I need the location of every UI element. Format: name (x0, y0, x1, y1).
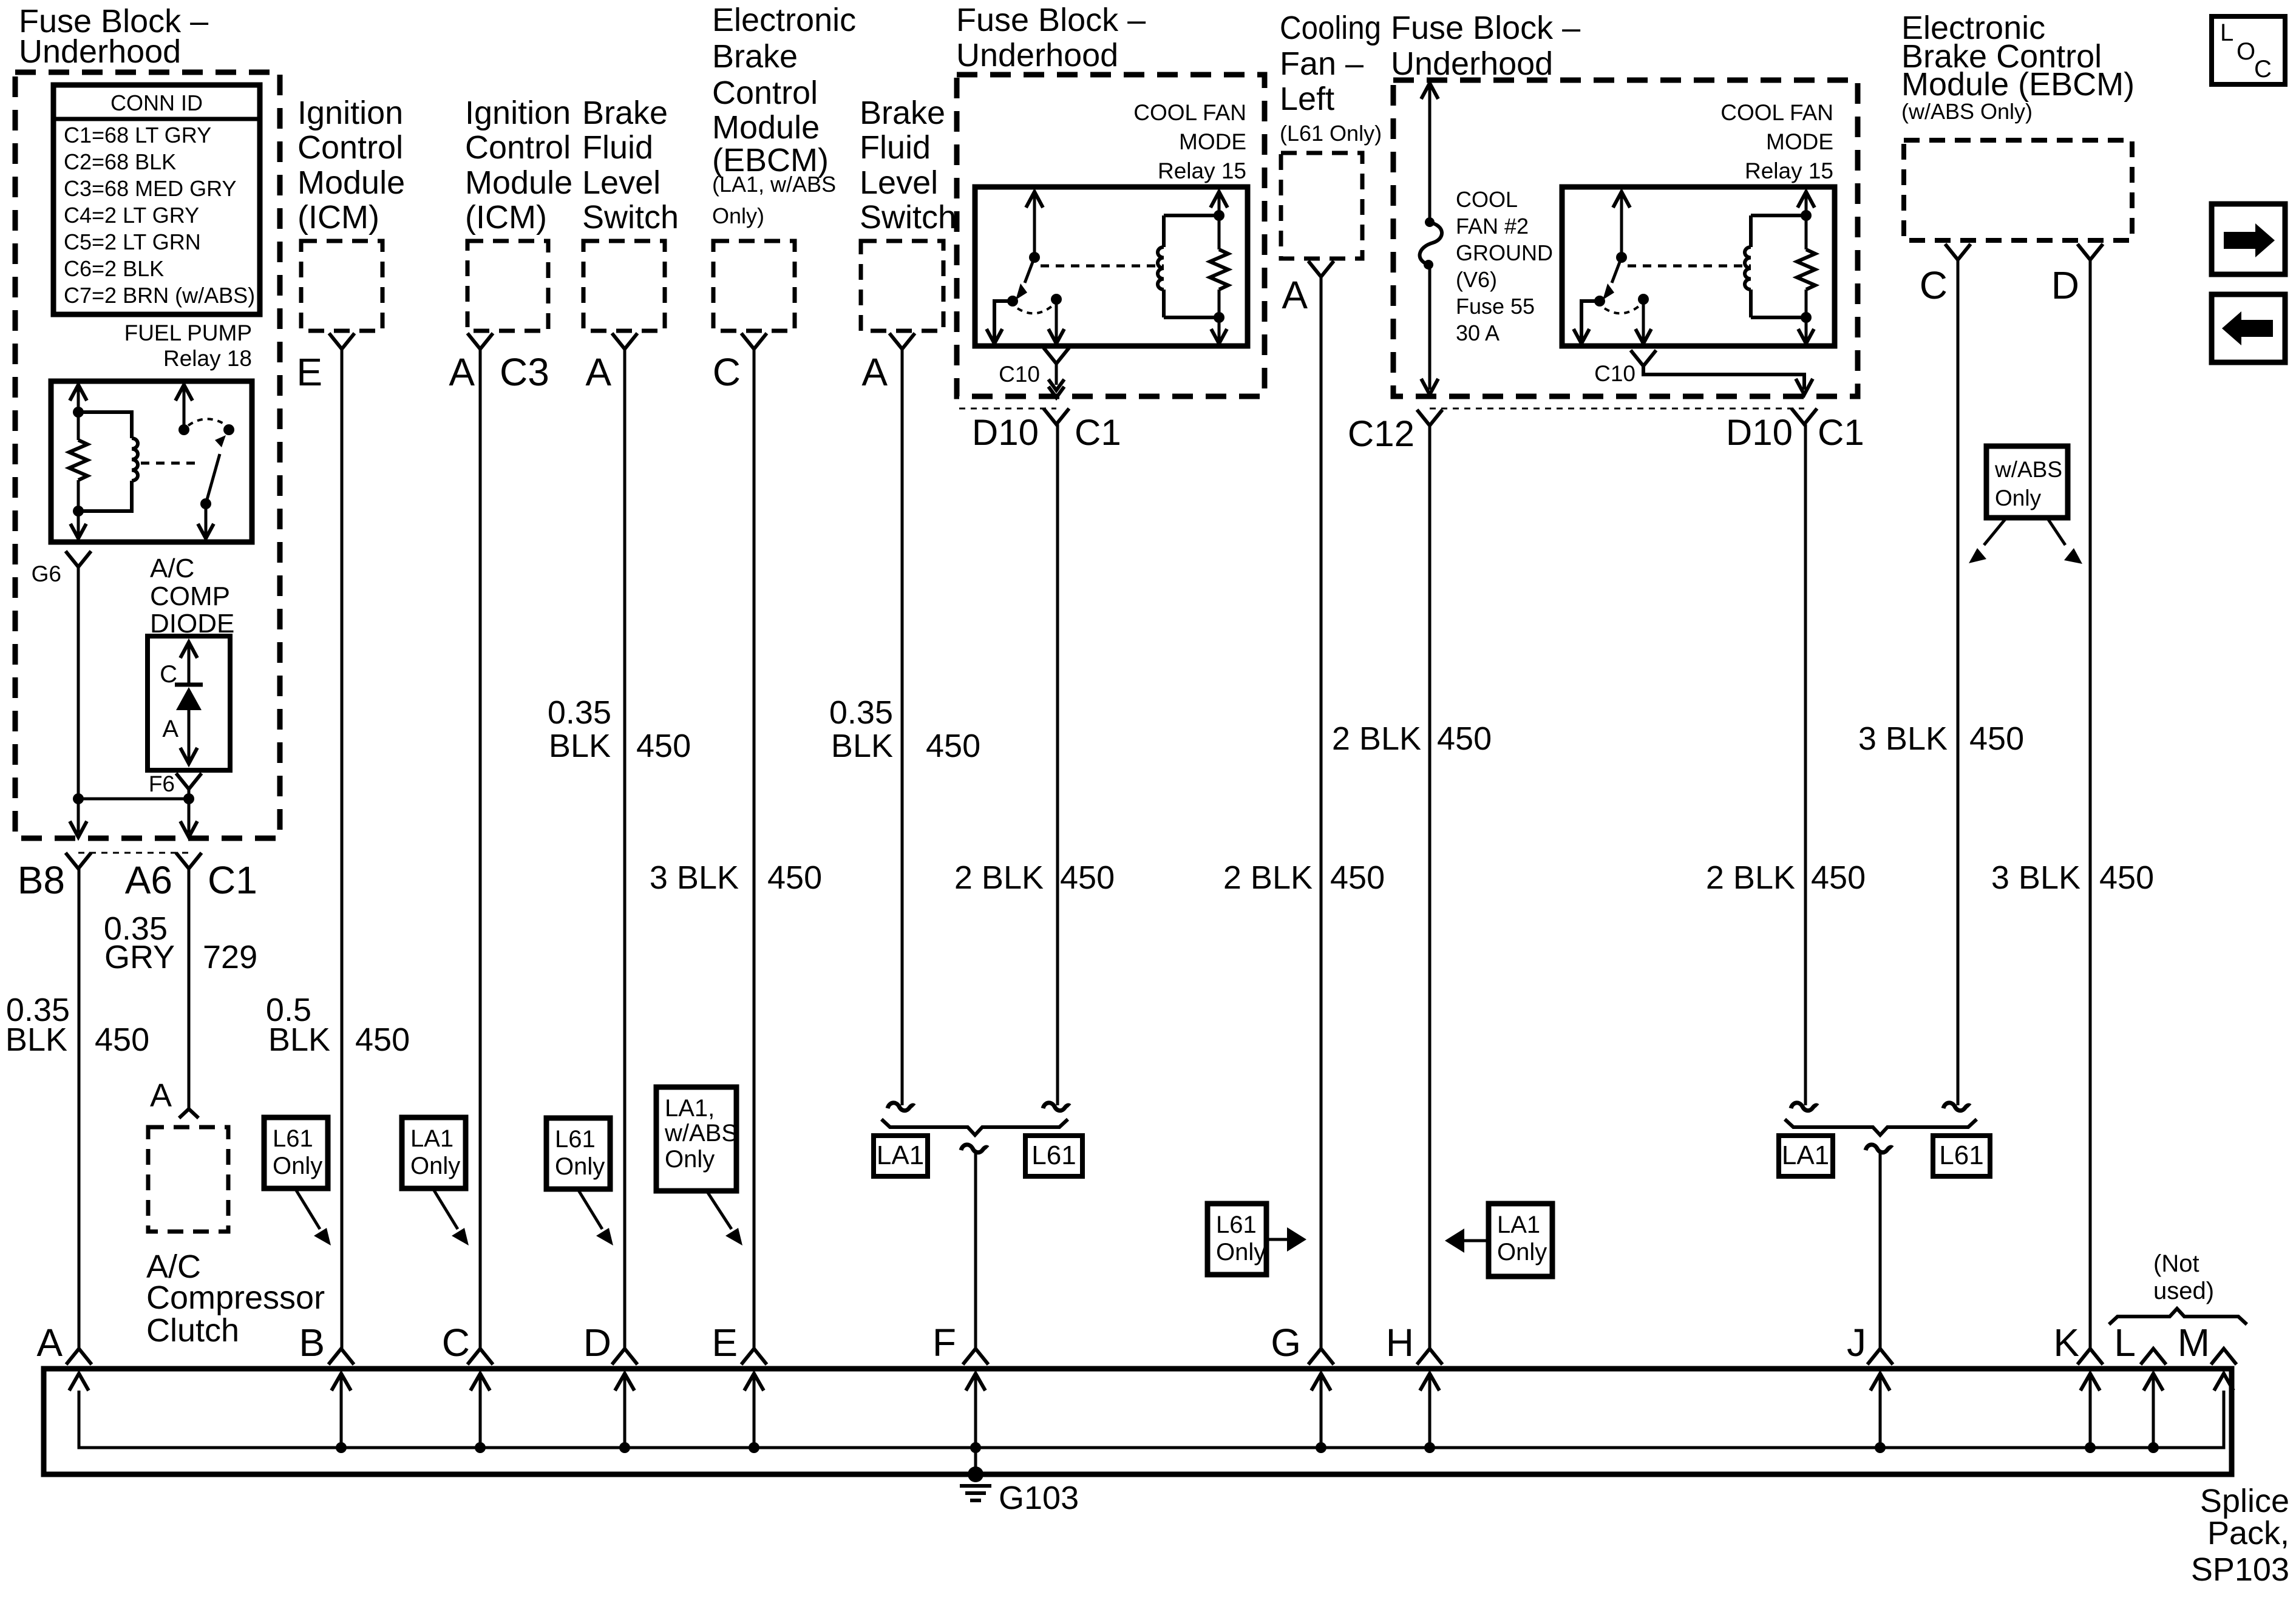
svg-text:G103: G103 (999, 1480, 1079, 1516)
connector F6 fork (149, 771, 202, 796)
svg-text:BLK: BLK (5, 1022, 67, 1058)
svg-text:B: B (299, 1321, 325, 1364)
svg-text:Fan –: Fan – (1280, 46, 1364, 82)
svg-text:Fuse Block –: Fuse Block – (1391, 10, 1580, 46)
svg-text:COOL FAN: COOL FAN (1133, 100, 1246, 125)
cooling fan - left dashed box (1281, 153, 1362, 259)
wire K (3 BLK 450) EBCM2-D to splice K (2089, 260, 2092, 1349)
svg-text:450: 450 (926, 728, 980, 764)
wire E (3 BLK 450) EBCM1-C to splice E (753, 349, 756, 1349)
A/C COMP DIODE label (150, 554, 234, 639)
svg-text:Pack,: Pack, (2207, 1515, 2289, 1551)
svg-text:Fuse Block –: Fuse Block – (956, 2, 1146, 38)
svg-text:D10: D10 (972, 412, 1039, 453)
svg-text:A: A (585, 350, 611, 394)
ignition control module 2 dashed box (467, 241, 548, 331)
cool fan mode relay 15 label (right) (1720, 100, 1833, 183)
svg-text:LA1: LA1 (1782, 1140, 1829, 1170)
connector D10/C1 fork (right) (1726, 408, 1864, 453)
svg-text:Control: Control (465, 129, 571, 166)
svg-text:MODE: MODE (1766, 129, 1833, 154)
L61 Only arrow (wire B) (295, 1188, 331, 1246)
svg-text:L61: L61 (1216, 1212, 1257, 1238)
connector A/C3 fork (ICM2) (449, 333, 549, 394)
svg-text:G: G (1271, 1321, 1301, 1364)
splice A connector (36, 1321, 92, 1391)
svg-text:w/ABS: w/ABS (664, 1120, 738, 1147)
svg-text:Fluid: Fluid (582, 129, 653, 166)
wire J to splice J (1866, 1145, 1892, 1349)
EBCM (LA1 w/ABS) dashed box (713, 241, 795, 331)
svg-text:3 BLK: 3 BLK (1991, 859, 2080, 896)
right-arrow legend box (2212, 204, 2285, 274)
svg-text:SP103: SP103 (2191, 1551, 2289, 1588)
svg-text:C1: C1 (208, 858, 257, 902)
svg-text:H: H (1386, 1321, 1414, 1364)
svg-text:Level: Level (582, 164, 661, 201)
svg-text:B8: B8 (18, 858, 65, 902)
label 0.35 BLK 450 (BFLS2 wire) (829, 694, 980, 764)
svg-text:BLK: BLK (831, 728, 893, 764)
LA1 Only horizontal arrow (wire H) (1445, 1229, 1489, 1253)
svg-text:2 BLK: 2 BLK (954, 859, 1044, 896)
L61 Only callout (wire D) (546, 1118, 610, 1189)
svg-text:C: C (442, 1321, 470, 1364)
svg-text:Brake: Brake (582, 95, 668, 131)
splice pack SP103 box (44, 1369, 2232, 1474)
wire H (2 BLK 450) C12 to splice H (1428, 425, 1432, 1349)
A/C compressor clutch dashed box (148, 1127, 228, 1232)
junction bus in fuse block (73, 793, 194, 804)
svg-text:450: 450 (1330, 859, 1385, 896)
connector D10/C1 fork (middle) (972, 408, 1121, 453)
svg-text:Relay 15: Relay 15 (1745, 158, 1833, 183)
fuse block - underhood (left) dashed box (15, 72, 280, 838)
svg-text:Level: Level (860, 164, 938, 201)
cooling fan - left title (1280, 10, 1382, 146)
EBCM (w/ABS) dashed box (1904, 140, 2132, 240)
svg-text:Control: Control (712, 75, 818, 111)
svg-text:used): used) (2153, 1278, 2214, 1304)
svg-text:C: C (1920, 263, 1948, 307)
svg-text:0.35: 0.35 (548, 694, 611, 731)
svg-text:LA1,: LA1, (665, 1095, 715, 1122)
splice J connector (1847, 1321, 1893, 1453)
svg-text:Only: Only (1497, 1239, 1547, 1266)
svg-text:C1=68 LT GRY: C1=68 LT GRY (64, 123, 211, 147)
left-arrow legend box (2212, 294, 2285, 362)
svg-text:A: A (36, 1321, 63, 1364)
svg-text:Relay 18: Relay 18 (163, 346, 252, 371)
L61 Only arrow (wire D) (577, 1188, 613, 1246)
L61 branch tag box (J) (1933, 1136, 1990, 1176)
fuel pump relay 18 (51, 381, 252, 542)
svg-text:450: 450 (355, 1022, 410, 1058)
cool fan mode relay 15 (middle) (975, 187, 1248, 346)
svg-text:(Not: (Not (2153, 1250, 2199, 1277)
svg-text:E: E (296, 350, 322, 394)
svg-text:450: 450 (767, 859, 822, 896)
svg-text:Switch: Switch (860, 199, 956, 236)
splice L connector (2114, 1321, 2166, 1453)
splice M connector (2178, 1321, 2237, 1391)
svg-text:D: D (583, 1321, 611, 1364)
LA1 w/ABS Only arrow (wire E) (707, 1191, 742, 1246)
svg-text:A/C: A/C (150, 554, 194, 583)
svg-text:Only: Only (1995, 486, 2042, 510)
brake fluid level switch 2 title (860, 95, 956, 236)
svg-text:Only): Only) (712, 203, 764, 228)
brake fluid level switch 1 dashed box (583, 241, 665, 331)
svg-text:Fuse 55: Fuse 55 (1456, 294, 1535, 319)
svg-text:L61: L61 (1031, 1140, 1076, 1170)
wire F to splice F / G103 (961, 1145, 988, 1349)
fuse block - underhood (right) title (1391, 10, 1580, 82)
wire stub to B8 with arrow (70, 799, 87, 837)
connector B8 fork (18, 853, 91, 902)
svg-text:Ignition: Ignition (297, 95, 403, 131)
svg-text:C: C (713, 350, 741, 394)
svg-text:Underhood: Underhood (19, 33, 181, 70)
svg-text:O: O (2237, 38, 2255, 65)
LA1 w/ABS Only callout (wire E) (656, 1087, 738, 1191)
svg-text:Cooling: Cooling (1280, 10, 1381, 46)
svg-text:A: A (861, 350, 888, 394)
w/ABS Only arrow to D wire (2047, 518, 2082, 564)
label 2 BLK 450 (wire G) (1223, 859, 1385, 896)
label 0.5 BLK 450 (wire B) (266, 992, 410, 1058)
svg-text:BLK: BLK (549, 728, 611, 764)
svg-text:GROUND: GROUND (1456, 240, 1553, 265)
svg-text:C12: C12 (1348, 413, 1415, 454)
svg-text:w/ABS: w/ABS (1994, 457, 2062, 482)
w/ABS Only callout box (1986, 446, 2068, 518)
wire from middle D10/C1 (2 BLK 450) to L61 branch (1043, 424, 1070, 1111)
svg-text:0.35: 0.35 (829, 694, 893, 731)
label 0.35 GRY 729 (wire A6) (104, 910, 257, 975)
fuse block - underhood (middle) title (956, 2, 1146, 73)
svg-text:C1: C1 (1818, 412, 1864, 453)
svg-text:(L61 Only): (L61 Only) (1280, 121, 1382, 146)
splice E connector (712, 1321, 767, 1453)
svg-text:2 BLK: 2 BLK (1332, 720, 1421, 757)
brake fluid level switch 2 dashed box (861, 241, 943, 331)
svg-text:(w/ABS Only): (w/ABS Only) (1901, 99, 2033, 124)
A/C compressor clutch label (146, 1249, 325, 1349)
CONN ID table (53, 85, 260, 314)
svg-text:Only: Only (410, 1153, 460, 1179)
svg-text:Compressor: Compressor (146, 1279, 325, 1316)
label 2 BLK 450 (wire H) (1332, 720, 1492, 757)
svg-text:Ignition: Ignition (465, 95, 571, 131)
LA1 branch tag box (J) (1779, 1136, 1833, 1176)
splice K connector (2053, 1321, 2103, 1453)
svg-text:Underhood: Underhood (956, 37, 1118, 73)
svg-text:C3=68 MED GRY: C3=68 MED GRY (64, 176, 236, 201)
svg-text:D10: D10 (1726, 412, 1793, 453)
wire A6/C1 (0.35 GRY 729) to A/C compressor clutch (188, 869, 191, 1109)
L61 Only callout (wire G) (1207, 1204, 1266, 1275)
svg-text:M: M (2178, 1321, 2210, 1364)
svg-text:BLK: BLK (268, 1022, 330, 1058)
brace joining LA1/L61 branches to wire F (881, 1119, 1068, 1135)
L61 branch tag box (F) (1025, 1136, 1082, 1176)
svg-text:C1: C1 (1075, 412, 1121, 453)
wire D (0.35 BLK 450) BFLS1 to splice D (623, 349, 627, 1349)
fuel pump relay 18 label (124, 320, 252, 371)
svg-text:450: 450 (1969, 720, 2024, 757)
connector G6 fork (32, 551, 91, 586)
A/C comp diode D1 (148, 636, 230, 770)
wire G (2 BLK 450) cooling fan to splice G (1320, 277, 1323, 1349)
svg-text:Module: Module (465, 164, 572, 201)
svg-text:Module (EBCM): Module (EBCM) (1901, 66, 2135, 103)
splice G connector (1271, 1321, 1334, 1453)
svg-text:C: C (2254, 56, 2272, 83)
svg-text:Left: Left (1280, 81, 1334, 117)
svg-text:(ICM): (ICM) (297, 199, 379, 236)
svg-text:F6: F6 (149, 771, 175, 796)
label 2 BLK 450 (middle D10/C1 wire) (954, 859, 1115, 896)
connector bracket below middle fuse block (959, 408, 1056, 410)
splice H connector (1386, 1321, 1442, 1453)
svg-text:450: 450 (636, 728, 691, 764)
wire from BFLS2 (0.35 BLK 450) to LA1 branch (888, 349, 914, 1111)
svg-text:CONN ID: CONN ID (110, 90, 203, 115)
connector D fork (EBCM2) (2051, 244, 2103, 307)
splice B connector (299, 1321, 354, 1453)
connector C10 fork (middle fuse block) (999, 348, 1069, 398)
svg-text:C2=68 BLK: C2=68 BLK (64, 149, 176, 174)
svg-text:450: 450 (1060, 859, 1115, 896)
svg-text:C3: C3 (500, 350, 549, 394)
svg-text:C10: C10 (1594, 361, 1635, 386)
splice F connector (932, 1321, 988, 1453)
cool fan mode relay 15 label (middle) (1133, 100, 1246, 183)
connector C12 fork (right) (1348, 410, 1442, 454)
svg-text:Only: Only (555, 1153, 605, 1180)
svg-text:2 BLK: 2 BLK (1706, 859, 1795, 896)
wire C12 with fuse 55 (1420, 83, 1442, 395)
fuse block - underhood (right) dashed box (1393, 80, 1858, 396)
svg-text:(V6): (V6) (1456, 267, 1497, 292)
connector A fork (A/C compressor clutch) (150, 1077, 199, 1118)
svg-text:C7=2 BRN (w/ABS): C7=2 BRN (w/ABS) (64, 283, 255, 308)
connector E fork (ICM1) (296, 333, 355, 394)
svg-text:C5=2 LT GRN: C5=2 LT GRN (64, 229, 201, 254)
svg-text:Fluid: Fluid (860, 129, 931, 166)
svg-text:450: 450 (2099, 859, 2154, 896)
svg-text:LA1: LA1 (1497, 1212, 1540, 1238)
svg-text:FAN #2: FAN #2 (1456, 214, 1529, 239)
svg-text:Relay 15: Relay 15 (1158, 158, 1246, 183)
svg-text:Splice: Splice (2200, 1483, 2289, 1519)
svg-text:450: 450 (95, 1022, 149, 1058)
splice C connector (442, 1321, 493, 1453)
svg-text:Only: Only (665, 1146, 715, 1173)
svg-text:450: 450 (1811, 859, 1866, 896)
svg-text:30 A: 30 A (1456, 320, 1500, 345)
ignition control module 1 dashed box (301, 241, 382, 331)
label 3 BLK 450 (EBCM2-C wire) (1858, 720, 2024, 757)
ignition control module 2 title (465, 95, 572, 236)
svg-text:K: K (2053, 1321, 2079, 1364)
svg-text:Control: Control (297, 129, 403, 166)
fuse 55 label (1456, 187, 1553, 345)
svg-text:F: F (932, 1321, 956, 1364)
svg-text:A: A (162, 716, 178, 742)
svg-text:C4=2 LT GRY: C4=2 LT GRY (64, 203, 199, 228)
LA1 Only callout (wire H) (1489, 1204, 1552, 1276)
EBCM (LA1 w/ABS) title (712, 2, 856, 228)
svg-text:L: L (2114, 1321, 2136, 1364)
svg-text:L61: L61 (1939, 1140, 1983, 1170)
svg-text:LA1: LA1 (877, 1140, 924, 1170)
splice pack internal bus (79, 1391, 2224, 1448)
ground label G103 (999, 1480, 1079, 1516)
ground G103 (960, 1448, 991, 1500)
svg-text:L61: L61 (273, 1125, 313, 1152)
svg-text:3 BLK: 3 BLK (650, 859, 739, 896)
wire B (0.5 BLK 450) ICM1-E to splice B (341, 349, 344, 1349)
svg-text:GRY: GRY (104, 939, 175, 975)
svg-text:3 BLK: 3 BLK (1858, 720, 1948, 757)
svg-text:COOL FAN: COOL FAN (1720, 100, 1833, 125)
connector A6 fork (125, 853, 257, 902)
wire from right D10/C1 (2 BLK 450) to LA1 branch (J) (1791, 424, 1818, 1111)
svg-text:Electronic: Electronic (712, 2, 856, 38)
svg-text:A: A (449, 350, 475, 394)
svg-text:L: L (2220, 19, 2233, 46)
svg-text:COOL: COOL (1456, 187, 1518, 212)
svg-text:729: 729 (203, 939, 257, 975)
label 2 BLK 450 (right D10/C1 wire) (1706, 859, 1866, 896)
connector bracket B8-A6 (78, 852, 189, 854)
(Not used) label and brace for L/M (2109, 1250, 2247, 1324)
label 0.35 BLK 450 (wire D) (548, 694, 691, 764)
svg-text:Brake: Brake (712, 38, 798, 75)
svg-text:Module: Module (297, 164, 405, 201)
svg-text:Brake: Brake (860, 95, 945, 131)
L61 Only horizontal arrow (wire G) (1266, 1227, 1306, 1252)
svg-text:Only: Only (273, 1153, 322, 1179)
LOC legend box (2212, 16, 2285, 84)
connector A fork (BFLS2) (861, 333, 915, 394)
svg-text:COMP: COMP (150, 581, 230, 611)
brake fluid level switch 1 title (582, 95, 679, 236)
wire from EBCM2-C (3 BLK 450) to L61 branch (J) (1943, 260, 1970, 1111)
wire G6 to junction (77, 567, 80, 799)
svg-text:Module: Module (712, 109, 820, 146)
svg-text:LA1: LA1 (410, 1125, 453, 1152)
connector C fork (EBCM1) (713, 333, 767, 394)
label 3 BLK 450 (wire E) (650, 859, 822, 896)
ignition control module 1 title (297, 95, 405, 236)
svg-text:A: A (1282, 273, 1308, 317)
cool fan mode relay 15 (right) (1562, 187, 1835, 346)
svg-text:L61: L61 (555, 1126, 596, 1153)
svg-text:2 BLK: 2 BLK (1223, 859, 1313, 896)
svg-text:Only: Only (1216, 1239, 1266, 1266)
svg-text:D: D (2051, 263, 2079, 307)
brace joining LA1/L61 branches to wire J (1785, 1119, 1977, 1135)
EBCM (w/ABS) title (1901, 10, 2135, 124)
svg-text:C10: C10 (999, 362, 1040, 387)
connector C fork (EBCM2) (1920, 244, 1971, 307)
w/ABS Only arrow to C wire (1969, 518, 2006, 563)
svg-text:E: E (712, 1321, 738, 1364)
svg-text:G6: G6 (32, 561, 61, 586)
svg-text:(ICM): (ICM) (465, 199, 547, 236)
connector C10 fork (right fuse block) (1594, 350, 1813, 395)
svg-text:J: J (1847, 1321, 1866, 1364)
svg-text:FUEL PUMP: FUEL PUMP (124, 320, 252, 345)
splice D connector (583, 1321, 637, 1453)
fuse block - underhood (left) title (19, 3, 208, 70)
LA1 Only callout (wire C) (402, 1117, 466, 1188)
svg-text:C: C (160, 661, 177, 688)
LA1 Only arrow (wire C) (433, 1188, 469, 1246)
svg-text:Clutch: Clutch (146, 1312, 239, 1349)
wire A (0.35 BLK 450) B8 to splice A (78, 869, 81, 1349)
svg-text:Underhood: Underhood (1391, 46, 1553, 82)
svg-text:(LA1, w/ABS: (LA1, w/ABS (712, 172, 836, 197)
wire F6 to junction (188, 789, 191, 799)
LA1 branch tag box (F) (874, 1136, 928, 1176)
svg-text:C6=2 BLK: C6=2 BLK (64, 256, 164, 281)
svg-text:450: 450 (1437, 720, 1492, 757)
svg-text:MODE: MODE (1179, 129, 1246, 154)
svg-text:Switch: Switch (582, 199, 679, 236)
wire C (ICM2) to splice C (479, 349, 482, 1349)
svg-text:A6: A6 (125, 858, 172, 902)
L61 Only callout (wire B) (264, 1117, 328, 1188)
label 3 BLK 450 (wire K) (1991, 859, 2154, 896)
label 0.35 BLK 450 (wire A) (5, 992, 149, 1058)
connector A fork (cooling fan) (1282, 261, 1334, 317)
wire stub to A6 with arrow (180, 799, 197, 837)
splice pack label (2191, 1483, 2289, 1588)
fuse block - underhood (middle) dashed box (957, 75, 1265, 396)
connector bracket below right fuse block (1430, 408, 1804, 410)
connector A fork (BFLS1) (585, 333, 637, 394)
svg-text:A: A (150, 1077, 172, 1114)
